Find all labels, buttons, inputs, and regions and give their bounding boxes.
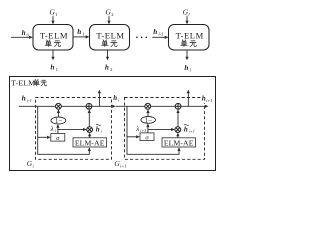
wire into sigma unit1 xyxy=(38,136,51,139)
wire box1 to box2 xyxy=(73,35,89,38)
wire ELM-AE up into x2 unit2 xyxy=(176,133,179,138)
wire box1 down output xyxy=(51,50,54,60)
one-minus ellipse unit1 xyxy=(51,117,66,125)
svg-text:ELM-AE: ELM-AE xyxy=(164,138,194,147)
T-ELM unit box 2 xyxy=(90,25,130,51)
wire G1 arrow into unit 1 xyxy=(51,16,54,25)
T-ELM unit box l xyxy=(169,25,210,51)
ELM-AE box unit2 xyxy=(162,138,196,148)
wire ellipse up into multiplier x1 unit1 xyxy=(57,109,60,117)
sigma box unit1 xyxy=(51,134,65,142)
sigma box unit2 xyxy=(140,133,154,141)
svg-text:i+1: i+1 xyxy=(189,129,195,134)
node h2 down label xyxy=(105,63,113,72)
wire drop + bottom feed to ELM-AE unit2 xyxy=(127,106,181,154)
T-ELM unit box 1 xyxy=(33,25,73,51)
wire h_i arrowhead mid line xyxy=(112,105,208,108)
svg-text:λ: λ xyxy=(135,126,139,133)
svg-text:T-ELM: T-ELM xyxy=(40,31,68,41)
adder circle unit1 xyxy=(86,103,92,109)
svg-text:h: h xyxy=(105,63,109,71)
wire h0 into box1 xyxy=(11,36,33,39)
svg-text:1−: 1− xyxy=(55,118,62,125)
wire ELM-AE up into x2 unit1 xyxy=(88,133,91,138)
wire x2 up into adder unit1 xyxy=(88,109,91,126)
dashed box G_i+1 xyxy=(125,98,205,160)
wire box2 down output xyxy=(106,50,109,60)
svg-text:h: h xyxy=(153,28,157,36)
node hl down label xyxy=(184,64,191,73)
multiplier circle x1 unit1 xyxy=(56,103,62,109)
node G2 label xyxy=(105,7,114,17)
node h-tilde_i+1 label xyxy=(184,124,195,133)
svg-text:i+1: i+1 xyxy=(140,128,146,133)
node lambda_i label xyxy=(50,126,57,133)
svg-text:i+1: i+1 xyxy=(206,98,212,103)
wire into box l xyxy=(152,36,168,39)
node h(l-1) wire label xyxy=(153,28,163,37)
svg-text:h: h xyxy=(184,64,188,72)
svg-text:T-ELM: T-ELM xyxy=(96,31,124,41)
node Gl label xyxy=(183,7,191,17)
node G_i label xyxy=(27,159,35,169)
wire drop + bottom feed to ELM-AE unit1 xyxy=(38,106,91,154)
wire ellipse up into multiplier x1 unit2 xyxy=(146,109,149,116)
svg-text:h: h xyxy=(50,63,54,71)
svg-text:λ: λ xyxy=(50,126,54,133)
node h_i-1 input label xyxy=(22,93,32,103)
ELM-AE box unit1 xyxy=(73,138,107,148)
svg-text:l-1: l-1 xyxy=(158,32,163,37)
one-minus ellipse unit2 xyxy=(141,117,156,125)
node G1 label xyxy=(49,7,58,17)
svg-text:ELM-AE: ELM-AE xyxy=(75,138,105,147)
svg-text:h: h xyxy=(202,94,206,102)
svg-text:h: h xyxy=(113,94,117,102)
wire Gl arrow into unit l xyxy=(185,16,188,25)
node h1 wire label xyxy=(77,28,85,37)
multiplier circle x2 unit2 xyxy=(175,127,181,133)
wire main line unit1 xyxy=(19,105,113,107)
svg-text:i-1: i-1 xyxy=(27,98,32,103)
svg-text:T-ELM: T-ELM xyxy=(176,31,204,41)
svg-text:h: h xyxy=(22,93,26,102)
outer detail box xyxy=(10,77,216,171)
svg-text:i+1: i+1 xyxy=(120,164,126,169)
wire h_i+1 up exit unit2 xyxy=(187,90,190,107)
wire sigma up to gate junction and ellipse unit2 xyxy=(146,123,149,132)
multiplier circle x2 unit1 xyxy=(87,127,93,133)
svg-text:h: h xyxy=(22,29,26,37)
svg-text:h: h xyxy=(77,28,81,36)
node h_i label xyxy=(113,94,120,103)
adder circle unit2 xyxy=(175,103,181,109)
ellipsis dots xyxy=(136,37,147,39)
wire gate to multiplier x2 unit2 xyxy=(148,128,175,131)
node lambda_i+1 label xyxy=(135,126,146,133)
svg-text:1−: 1− xyxy=(145,117,152,124)
wire h_i up exit unit1 xyxy=(98,90,101,107)
dashed box G_i xyxy=(36,98,112,160)
wire gate to multiplier x2 unit1 xyxy=(58,128,87,131)
svg-text:h: h xyxy=(184,125,188,133)
wire x2 up into adder unit2 xyxy=(176,109,179,126)
svg-text:h: h xyxy=(96,125,100,133)
wire G2 arrow into unit 2 xyxy=(107,16,110,25)
node h_i+1 label xyxy=(201,94,213,103)
multiplier circle x1 unit2 xyxy=(145,103,151,109)
wire into sigma unit2 xyxy=(127,135,140,138)
title T-ELM unit xyxy=(11,78,46,87)
node h1 down label xyxy=(50,63,58,72)
node G_i+1 label xyxy=(114,159,126,169)
node h-tilde_i label xyxy=(96,124,103,133)
node h0 input label xyxy=(22,29,29,37)
wire sigma up to gate junction and ellipse unit1 xyxy=(56,124,59,133)
wire box l down output xyxy=(185,50,188,60)
svg-text:T-ELM: T-ELM xyxy=(11,78,35,87)
